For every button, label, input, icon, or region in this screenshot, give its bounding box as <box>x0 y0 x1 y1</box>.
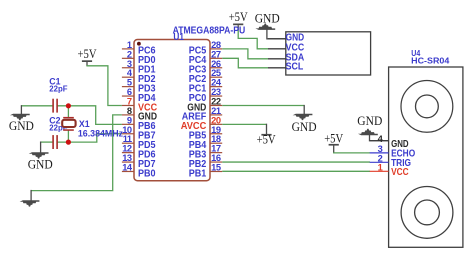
svg-text:16.384MHz: 16.384MHz <box>78 128 124 138</box>
ground (C1) <box>9 114 34 133</box>
I2C module pin SDA <box>268 53 304 64</box>
ground (top, I2C module) <box>255 12 280 30</box>
U1 pin 28 PC5 <box>189 40 223 57</box>
capacitor C1 <box>52 99 58 113</box>
U4 pin 3 ECHO <box>370 144 416 160</box>
U4 transducer circle (bottom) <box>401 187 453 239</box>
wire GND stem near pin22 <box>303 105 305 114</box>
wire U1 pin28 to SDA <box>222 49 268 59</box>
U1 pin 22 GND <box>187 96 222 113</box>
U1 pin 27 PC4 <box>189 49 223 66</box>
wire GND to module GND <box>267 29 286 39</box>
svg-text:GND: GND <box>255 12 280 26</box>
wire GND1 stem <box>20 105 22 114</box>
U4 pin 4 GND <box>370 134 409 150</box>
ground (HC-SR04) <box>357 114 382 135</box>
wire U1 pin8 GND to ground <box>31 115 122 191</box>
wire X1 bottom to junction <box>67 130 69 142</box>
U1 pin 14 PB0 <box>122 162 156 179</box>
svg-text:15: 15 <box>211 162 221 172</box>
U1 pin 18 PB4 <box>189 134 223 151</box>
capacitor C2 <box>52 135 58 149</box>
U1 pin 11 PD5 <box>122 134 156 151</box>
svg-text:+5V: +5V <box>229 10 248 24</box>
power +5V (right) <box>324 132 343 146</box>
wire GND to C2 <box>41 141 53 143</box>
svg-text:1: 1 <box>378 162 383 172</box>
sensor U4 HC-SR04 body <box>389 67 463 247</box>
svg-text:22pF: 22pF <box>49 84 67 94</box>
I2C module body <box>286 32 371 75</box>
svg-text:14: 14 <box>122 162 133 172</box>
wire +5V to ECHO <box>333 152 370 154</box>
power +5V (top) <box>229 10 248 25</box>
power +5V (AVCC) <box>257 133 276 147</box>
U1 pin 10 PB7 <box>122 125 156 142</box>
svg-text:VCC: VCC <box>391 167 409 178</box>
U1 pin 9 PB6 <box>122 115 156 132</box>
svg-text:GND: GND <box>357 114 382 128</box>
wire GND to HC-SR04 pin4 <box>370 135 389 141</box>
U4 pin 1 VCC <box>370 162 409 178</box>
U1 pin 17 PB3 <box>189 144 223 161</box>
U1 pin 5 PD3 <box>122 78 156 95</box>
wire GND stem bottom-left <box>30 190 32 201</box>
wire U1 pin20 AVCC to +5V <box>222 123 266 125</box>
U1 pin 1 PC6 <box>122 40 156 57</box>
ground (bottom-left) <box>20 200 40 206</box>
U1 pin 21 AREF <box>182 106 223 123</box>
I2C module pin SCL <box>268 62 303 73</box>
U1 pin 2 PD0 <box>122 49 156 66</box>
svg-text:GND: GND <box>292 120 317 134</box>
IC U1 body ATMEGA88PA-PU <box>134 40 210 181</box>
U1 pin 6 PD4 <box>122 87 156 104</box>
U1 pin 13 PD7 <box>122 153 156 170</box>
U1 pin 26 PC3 <box>189 59 223 76</box>
svg-text:+5V: +5V <box>324 132 343 146</box>
I2C module pin GND <box>268 33 304 44</box>
U1 pin 19 PB5 <box>189 125 223 142</box>
U1 pin 16 PB2 <box>189 153 223 170</box>
svg-text:GND: GND <box>9 119 34 133</box>
wire U1 pin15 to HC-SR04 VCC <box>222 170 370 172</box>
junction node XTAL2 <box>66 140 71 145</box>
ground (U1 pin22) <box>292 114 317 134</box>
wire +5V to module VCC <box>238 30 268 49</box>
U1 pin 25 PC2 <box>189 68 223 85</box>
svg-text:+5V: +5V <box>78 47 97 61</box>
U1 pin 15 PB1 <box>189 162 223 179</box>
svg-text:+5V: +5V <box>257 133 276 147</box>
I2C module pin VCC <box>268 43 304 54</box>
U1 pin 7 VCC <box>122 96 158 113</box>
wire +5V to U1 pin7 VCC <box>86 66 122 106</box>
wire C2/X1 to U1 pin10 XTAL2 <box>57 134 122 142</box>
U1 pin 23 PC0 <box>189 87 223 104</box>
power +5V (top-left) <box>78 47 97 62</box>
wire junction to X1 top <box>67 106 69 118</box>
U1 pin-1 mark <box>137 42 141 46</box>
U1 pin 8 GND <box>122 106 157 123</box>
svg-text:PB0: PB0 <box>138 167 156 179</box>
wire U1 pin27 to SCL <box>222 58 268 67</box>
svg-text:GND: GND <box>28 158 53 172</box>
U1 pin 12 PD6 <box>122 144 156 161</box>
wire +5V stem (top) <box>237 25 239 30</box>
wire C1/X1 to U1 pin9 XTAL1 <box>57 106 122 125</box>
U1 pin 4 PD2 <box>122 68 156 85</box>
svg-text:U1: U1 <box>173 32 184 43</box>
U1 pin 24 PC1 <box>189 78 223 95</box>
U1 pin 20 AVCC <box>181 115 223 132</box>
wire GND2 stem <box>40 142 42 153</box>
ground (C2) <box>28 152 53 172</box>
svg-text:PB1: PB1 <box>189 167 207 179</box>
wire +5V stem (right) <box>333 145 335 153</box>
svg-text:SCL: SCL <box>286 62 304 73</box>
wire U1 pin16 to TRIG <box>222 161 370 163</box>
junction node XTAL1 <box>66 103 71 108</box>
wire GND to C1 <box>21 105 53 107</box>
svg-text:HC-SR04: HC-SR04 <box>411 55 449 65</box>
U4 transducer circle (top) <box>401 81 453 133</box>
U1 pin 3 PD1 <box>122 59 156 76</box>
wire U1 pin22 GND <box>222 104 304 106</box>
crystal X1 <box>62 117 75 131</box>
U4 pin 2 TRIG <box>370 153 412 169</box>
wire +5V stem (AVCC) <box>266 124 268 135</box>
wire +5V stem (top-left) <box>86 62 88 66</box>
